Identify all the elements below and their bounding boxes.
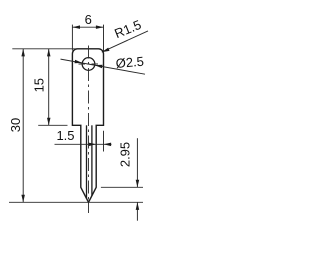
dim 1.5 extension line	[103, 131, 105, 152]
hole	[82, 58, 95, 71]
svg-text:30: 30	[8, 118, 23, 132]
leader dia 2.5 line	[61, 59, 146, 74]
leader R1.5 arrow	[102, 48, 110, 53]
dim 2.95 line upper	[136, 138, 138, 187]
dim 15 line	[48, 49, 50, 126]
dim 6 line	[72, 26, 103, 28]
dim 30 arrows	[21, 49, 25, 57]
blade inner edge left	[86, 125, 88, 198]
svg-text:Ø2.5: Ø2.5	[115, 54, 144, 71]
svg-text:15: 15	[32, 78, 47, 92]
dim 2.95 extension line top	[101, 186, 143, 188]
dim 2.95 line lower	[136, 202, 138, 220]
dim 1.5 arrows	[89, 143, 97, 147]
svg-text:6: 6	[85, 12, 92, 27]
bottom extension line	[9, 201, 143, 203]
dim 6 extension lines	[71, 25, 73, 51]
dim 1.5 line	[55, 143, 112, 145]
dim 15 arrows	[47, 49, 51, 57]
leader R1.5 line	[102, 31, 148, 52]
dim 15 extension line bottom	[38, 124, 67, 126]
blade inner edge right	[91, 125, 93, 195]
vertical centerline	[88, 46, 90, 214]
svg-text:2.95: 2.95	[118, 142, 133, 167]
leader dia 2.5 arrows	[75, 60, 83, 64]
svg-text:1.5: 1.5	[56, 128, 74, 143]
dim 2.95 arrows	[136, 180, 140, 188]
part outline	[72, 49, 103, 203]
dim 6 arrows	[72, 25, 80, 29]
hole horizontal centerline	[79, 63, 99, 65]
dim 30 line	[22, 49, 24, 203]
top extension line	[12, 48, 77, 50]
svg-text:R1.5: R1.5	[112, 17, 143, 41]
